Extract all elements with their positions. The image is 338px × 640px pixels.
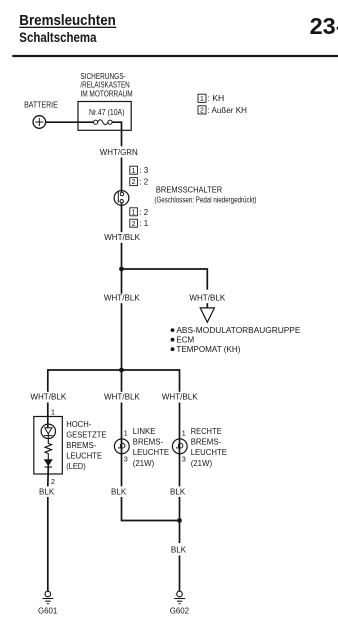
connector pin 2: 1 [130,219,149,228]
svg-text:WHT/BLK: WHT/BLK [162,393,198,402]
wire lamp down [121,454,123,487]
legend 2: Ausser KH [198,106,247,115]
left brake lamp (21W) [114,439,129,454]
svg-text:: Außer KH: : Außer KH [208,106,248,115]
label LINKE BREMSLEUCHTE [133,427,169,468]
svg-text:G601: G601 [38,607,58,616]
wire to right lamp [179,403,181,454]
svg-text:BREMSSCHALTER: BREMSSCHALTER [156,186,223,195]
middle drop wire [121,369,123,392]
wire to join node [122,497,180,521]
wire fuse to down [112,122,121,146]
wire into LED box [47,403,49,429]
wire lamp down [179,454,181,487]
connector pin 1: 2 [130,208,149,217]
resistor (in LED lamp) [45,434,52,459]
svg-text:: 1: : 1 [139,219,148,228]
svg-text:1: 1 [132,168,136,175]
LED lamp symbol [41,424,55,438]
svg-text:: 3: : 3 [139,166,148,175]
svg-text:2: 2 [51,477,55,486]
svg-text:LINKE: LINKE [133,427,156,436]
bullet ABS-Modulatorbaugruppe [171,328,175,332]
brake switch (Bremsschalter) [114,191,129,206]
svg-text:BREMS-: BREMS- [191,438,222,447]
svg-text:1: 1 [132,209,136,216]
svg-text:ABS-MODULATORBAUGRUPPE: ABS-MODULATORBAUGRUPPE [176,326,300,335]
wire to ground G601 [47,497,49,591]
distribution bus wire [48,369,180,371]
connector pin 1: 3 [130,166,149,175]
wire to distribution [121,303,123,370]
svg-text:WHT/BLK: WHT/BLK [104,233,140,242]
svg-text:LEUCHTE: LEUCHTE [133,448,169,457]
svg-text:1: 1 [182,429,186,438]
svg-text:TEMPOMAT (KH): TEMPOMAT (KH) [176,345,240,354]
svg-text:: 2: : 2 [139,208,148,217]
svg-text:23-: 23- [310,13,338,39]
svg-text:3: 3 [182,455,186,464]
fuse/relay box label [80,72,133,98]
svg-text:WHT/BLK: WHT/BLK [104,294,140,303]
svg-text:RECHTE: RECHTE [191,427,222,436]
wire to brake switch [121,158,123,193]
connector pin 2: 2 [130,178,149,187]
svg-text:LEUCHTE: LEUCHTE [191,448,227,457]
ground G602 [174,591,185,604]
svg-text:1: 1 [124,429,128,438]
svg-text:IM MOTORRAUM: IM MOTORRAUM [80,89,133,98]
right brake lamp (21W) [172,439,187,454]
svg-text:WHT/BLK: WHT/BLK [104,393,140,402]
svg-text:BATTERIE: BATTERIE [24,100,58,109]
svg-text:BLK: BLK [39,488,55,497]
label HOCHGESETZTE BREMSLEUCHTE [66,420,106,471]
svg-text:2: 2 [132,221,136,228]
svg-text:WHT/BLK: WHT/BLK [189,294,225,303]
svg-text:Schaltschema: Schaltschema [19,29,96,45]
wire battery to fuse [46,121,94,123]
svg-text:GESETZTE: GESETZTE [66,431,106,440]
bullet ECM [171,338,175,342]
svg-text:Nr.47 (10A): Nr.47 (10A) [89,108,125,117]
wire to left lamp [121,403,123,454]
svg-text:WHT/BLK: WHT/BLK [30,393,66,402]
svg-text:BREMS-: BREMS- [66,441,96,450]
wire to arrow [206,303,208,307]
svg-text:2: 2 [132,179,136,186]
legend 1: KH [198,94,224,103]
junction node (grounds join) [177,518,182,523]
wire to junction [121,243,123,294]
svg-text:(21W): (21W) [191,459,213,468]
bullet Tempomat [171,347,175,351]
wire switch down [121,203,123,232]
wire to join node [179,497,181,543]
svg-text:: 2: : 2 [139,178,148,187]
svg-text:BLK: BLK [171,545,187,554]
wire LED to pin 2 [47,466,50,487]
fuse box (Sicherungs-/Relaiskasten) [78,102,131,131]
svg-text:BREMS-: BREMS- [133,438,164,447]
fuse No.47 (10A) symbol [94,120,113,125]
header rule [12,55,338,57]
wire branch right [122,269,208,290]
svg-text:2: 2 [200,108,204,115]
svg-text:HOCH-: HOCH- [66,420,91,429]
svg-text:3: 3 [124,455,128,464]
svg-text:(LED): (LED) [66,462,86,471]
svg-text:/RELAISKASTEN: /RELAISKASTEN [80,81,129,90]
svg-text:(21W): (21W) [133,459,155,468]
off-page arrow [200,308,214,322]
svg-text:SICHERUNGS-: SICHERUNGS- [80,72,126,81]
label RECHTE BREMSLEUCHTE [191,427,227,468]
svg-text:WHT/GRN: WHT/GRN [100,148,138,157]
svg-text:G602: G602 [170,607,190,616]
svg-text:1: 1 [200,96,204,103]
right drop wire [179,369,181,392]
svg-text:Bremsleuchten: Bremsleuchten [19,12,116,29]
left drop wire [47,369,49,392]
wire to ground G602 [179,556,181,592]
junction node [119,267,124,272]
title Bremsleuchten [19,12,116,29]
svg-text:(Geschlossen: Pedal niedergedr: (Geschlossen: Pedal niedergedrückt) [154,195,256,204]
svg-text:LEUCHTE: LEUCHTE [66,452,102,461]
svg-text:ECM: ECM [176,335,194,344]
ground G601 [43,591,54,604]
svg-text:BLK: BLK [170,488,186,497]
svg-text:1: 1 [51,407,55,416]
high-mount brake light box [34,417,63,475]
battery B1 (+) terminal [33,116,46,129]
diode (LED) [45,460,53,466]
svg-text:BLK: BLK [111,488,127,497]
junction node on bus [119,368,124,373]
svg-text:: KH: : KH [208,94,225,103]
